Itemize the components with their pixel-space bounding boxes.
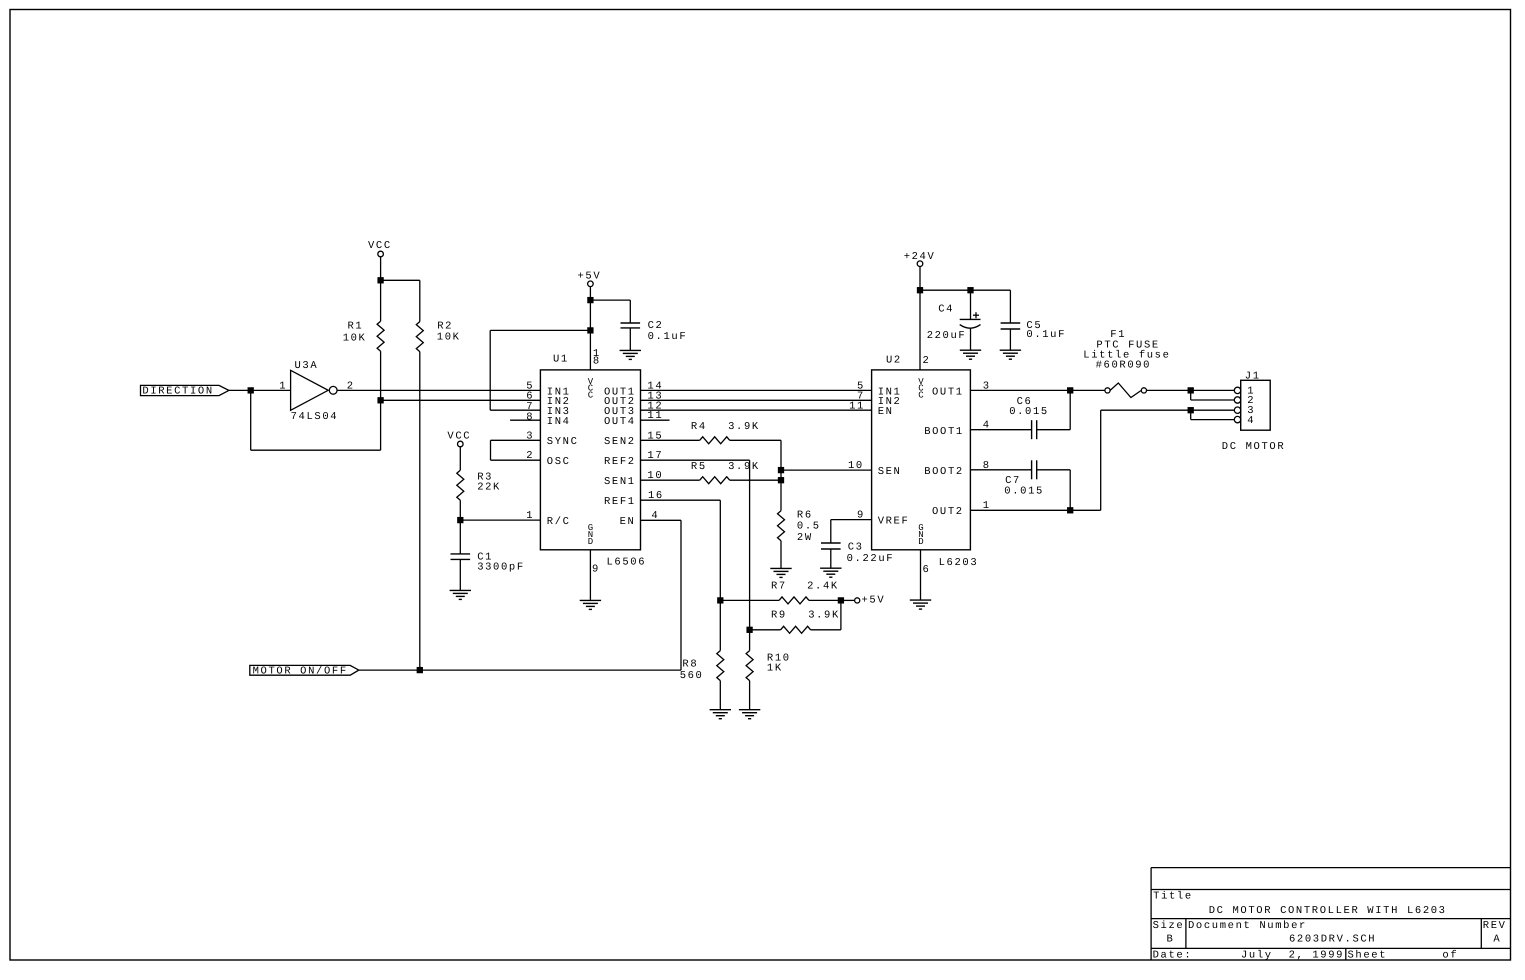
U1 pin OUT1 xyxy=(604,380,663,398)
U2 pin EN xyxy=(849,400,893,418)
svg-text:R5: R5 xyxy=(691,461,707,473)
resistor R1 xyxy=(343,280,384,400)
svg-text:3.9K: 3.9K xyxy=(808,610,840,622)
svg-text:22K: 22K xyxy=(477,482,501,494)
U2 pin OUT2 xyxy=(932,500,991,518)
wire xyxy=(1191,409,1235,411)
svg-text:R4: R4 xyxy=(691,421,707,433)
svg-text:L6506: L6506 xyxy=(607,557,647,569)
wire xyxy=(589,330,591,370)
svg-text:1: 1 xyxy=(279,380,287,392)
svg-text:C: C xyxy=(588,390,594,400)
capacitor C4 (electrolytic) xyxy=(927,290,981,342)
U2 pin VREF xyxy=(857,510,909,528)
wire xyxy=(590,299,630,301)
ground xyxy=(450,590,471,599)
junction xyxy=(588,328,593,333)
svg-text:74LS04: 74LS04 xyxy=(291,411,339,423)
wire xyxy=(1069,470,1071,511)
junction xyxy=(918,288,923,293)
U1 pin IN2 xyxy=(526,390,570,408)
wire xyxy=(381,279,420,281)
power VCC (R3) xyxy=(447,431,471,447)
svg-text:3.9K: 3.9K xyxy=(728,421,760,433)
resistor R9 xyxy=(750,610,841,634)
resistor R5 xyxy=(641,461,782,484)
junction xyxy=(838,598,843,603)
junction xyxy=(458,518,463,523)
U1 pin R/C xyxy=(526,510,570,528)
svg-text:9: 9 xyxy=(857,510,865,522)
svg-text:10K: 10K xyxy=(343,332,367,344)
svg-text:D: D xyxy=(588,537,593,547)
wire xyxy=(970,328,972,350)
junction xyxy=(1068,388,1073,393)
wire xyxy=(491,459,541,461)
resistor R7 xyxy=(720,580,841,604)
wire xyxy=(337,389,540,391)
wire xyxy=(641,459,750,461)
svg-text:10K: 10K xyxy=(437,332,461,344)
svg-text:C3: C3 xyxy=(848,542,864,554)
wire xyxy=(1191,399,1235,401)
resistor R8 xyxy=(680,600,724,709)
svg-text:+24V: +24V xyxy=(904,251,936,263)
svg-text:Date:: Date: xyxy=(1153,950,1193,962)
wire xyxy=(781,469,872,471)
junction xyxy=(248,388,253,393)
wire xyxy=(1101,409,1191,411)
wire xyxy=(841,599,855,601)
ground xyxy=(960,350,981,359)
svg-text:DC MOTOR: DC MOTOR xyxy=(1222,441,1285,453)
wire xyxy=(510,419,540,421)
U2 pin 6 label xyxy=(923,564,931,576)
svg-text:DIRECTION: DIRECTION xyxy=(142,385,213,397)
wire xyxy=(359,669,681,671)
junction xyxy=(417,668,422,673)
svg-text:R6: R6 xyxy=(797,509,813,521)
wire xyxy=(1100,410,1102,510)
wire xyxy=(1147,389,1235,391)
ground xyxy=(910,600,931,609)
wire xyxy=(380,257,382,281)
wire xyxy=(629,300,631,323)
resistor R4 xyxy=(641,421,782,444)
svg-text:VREF: VREF xyxy=(878,516,910,528)
junction xyxy=(378,278,383,283)
svg-text:4: 4 xyxy=(1247,415,1255,427)
wire xyxy=(381,399,541,401)
U1 GND pin name xyxy=(588,523,593,547)
U1 pin REF2 xyxy=(604,450,663,468)
svg-text:SEN1: SEN1 xyxy=(604,476,636,488)
svg-text:BOOT2: BOOT2 xyxy=(924,466,964,478)
wire xyxy=(641,519,682,521)
U2 pin SEN xyxy=(848,460,901,478)
wire xyxy=(719,500,721,600)
ground xyxy=(580,600,601,609)
U1 pin OSC xyxy=(526,450,570,468)
pin 2 label U3A xyxy=(347,380,355,392)
U2 pin BOOT2 xyxy=(924,460,991,478)
wire xyxy=(970,509,1100,511)
wire xyxy=(489,330,491,410)
svg-text:of: of xyxy=(1442,950,1458,962)
svg-text:B: B xyxy=(1167,934,1175,946)
power VCC (R1/R2) xyxy=(368,240,392,257)
svg-text:0.015: 0.015 xyxy=(1009,406,1049,418)
U1 pin SYNC xyxy=(526,430,578,448)
resistor R6 xyxy=(778,509,821,568)
wire xyxy=(1190,390,1192,400)
fuse F1 xyxy=(1083,329,1170,398)
wire xyxy=(1037,429,1071,431)
svg-text:R9: R9 xyxy=(771,610,787,622)
wire xyxy=(920,550,922,600)
svg-text:9: 9 xyxy=(592,564,600,576)
resistor R3 xyxy=(457,447,501,520)
pin 1 label U3A xyxy=(279,380,287,392)
svg-text:#60R090: #60R090 xyxy=(1096,360,1152,372)
input port MOTOR ON/OFF xyxy=(250,665,359,677)
svg-text:2: 2 xyxy=(923,355,931,367)
svg-text:R/C: R/C xyxy=(547,516,571,528)
junction xyxy=(1188,388,1193,393)
wire xyxy=(641,499,721,501)
wire xyxy=(970,469,1031,471)
U2 VCC pin name xyxy=(918,377,924,400)
svg-text:6: 6 xyxy=(923,564,931,576)
svg-text:OSC: OSC xyxy=(547,456,571,468)
svg-text:SEN2: SEN2 xyxy=(604,436,636,448)
svg-text:R7: R7 xyxy=(771,580,787,592)
wire xyxy=(380,400,382,450)
wire xyxy=(589,300,591,330)
svg-text:REF1: REF1 xyxy=(604,496,636,508)
svg-text:OUT4: OUT4 xyxy=(604,416,636,428)
svg-text:8: 8 xyxy=(526,411,534,423)
wire xyxy=(680,520,682,670)
wire xyxy=(589,550,591,601)
wire xyxy=(251,389,291,391)
svg-text:0.5: 0.5 xyxy=(797,521,821,533)
junction xyxy=(1068,508,1073,513)
wire xyxy=(589,287,591,301)
capacitor C3 xyxy=(821,520,894,569)
svg-text:0.015: 0.015 xyxy=(1004,486,1044,498)
svg-text:A: A xyxy=(1493,934,1501,946)
svg-text:U2: U2 xyxy=(886,355,902,367)
svg-text:IN4: IN4 xyxy=(547,416,571,428)
title block xyxy=(1151,868,1510,962)
wire xyxy=(920,289,1010,291)
svg-text:3300pF: 3300pF xyxy=(477,562,525,574)
svg-text:VCC: VCC xyxy=(447,431,471,443)
wire xyxy=(970,429,1031,431)
svg-text:+5V: +5V xyxy=(862,595,886,607)
U2 GND pin name xyxy=(918,523,923,547)
junction xyxy=(718,598,723,603)
svg-text:0.22uF: 0.22uF xyxy=(847,553,895,565)
svg-text:6203DRV.SCH: 6203DRV.SCH xyxy=(1289,934,1376,946)
svg-text:Document Number: Document Number xyxy=(1188,920,1307,932)
wire xyxy=(749,460,751,630)
junction xyxy=(779,468,784,473)
resistor R2 xyxy=(416,280,460,670)
svg-text:560: 560 xyxy=(680,670,704,682)
svg-text:Sheet: Sheet xyxy=(1348,950,1388,962)
junction xyxy=(588,298,593,303)
U1 pin IN4 xyxy=(526,411,570,428)
ground xyxy=(1000,350,1021,359)
svg-text:SEN: SEN xyxy=(878,466,902,478)
wire xyxy=(490,440,492,460)
svg-text:R8: R8 xyxy=(682,659,698,671)
U1 pin SEN2 xyxy=(604,430,663,448)
svg-text:U1: U1 xyxy=(553,354,569,366)
svg-text:3.9K: 3.9K xyxy=(728,461,760,473)
svg-text:8: 8 xyxy=(593,356,601,368)
svg-text:Title: Title xyxy=(1153,891,1193,903)
svg-text:OUT1: OUT1 xyxy=(932,386,964,398)
svg-text:220uF: 220uF xyxy=(927,330,967,342)
svg-text:2.4K: 2.4K xyxy=(807,580,839,592)
svg-text:1K: 1K xyxy=(767,663,783,675)
junction xyxy=(378,398,383,403)
U1 pin OUT3 xyxy=(604,400,663,418)
wire xyxy=(831,519,872,521)
svg-text:L6203: L6203 xyxy=(939,557,979,569)
wire xyxy=(919,290,921,370)
wire xyxy=(229,389,251,391)
svg-text:C: C xyxy=(918,390,924,400)
op-amp U1 body xyxy=(540,354,646,569)
wire xyxy=(641,399,872,401)
svg-text:2W: 2W xyxy=(797,532,813,544)
wire xyxy=(641,389,872,391)
connector J1 xyxy=(1222,371,1285,454)
wire xyxy=(491,439,541,441)
wire xyxy=(1037,469,1071,471)
U2 pin IN1 xyxy=(857,380,901,398)
svg-text:10: 10 xyxy=(848,460,864,472)
svg-text:0.1uF: 0.1uF xyxy=(1026,329,1066,341)
svg-text:J1: J1 xyxy=(1245,371,1261,383)
svg-text:EN: EN xyxy=(878,406,894,418)
ground xyxy=(739,710,760,719)
wire xyxy=(919,267,921,291)
op-amp U2 body xyxy=(872,355,979,570)
svg-text:R1: R1 xyxy=(348,321,364,333)
wire xyxy=(970,389,1105,391)
junction xyxy=(1188,408,1193,413)
ground xyxy=(710,710,731,719)
capacitor C6 xyxy=(1009,396,1049,439)
U1 pin 9 label xyxy=(592,564,600,576)
wire xyxy=(1191,419,1235,421)
svg-text:July 2, 1999: July 2, 1999 xyxy=(1241,950,1344,962)
U1 pin IN1 xyxy=(526,380,570,398)
wire xyxy=(840,600,842,629)
svg-text:11: 11 xyxy=(849,400,865,412)
svg-text:MOTOR ON/OFF: MOTOR ON/OFF xyxy=(253,665,348,677)
U1 pin SEN1 xyxy=(604,470,663,488)
capacitor C7 xyxy=(1004,460,1044,497)
wire xyxy=(460,519,540,521)
U1 pin EN xyxy=(620,510,660,528)
capacitor C2 xyxy=(621,320,688,343)
wire xyxy=(250,390,252,450)
svg-text:VCC: VCC xyxy=(368,240,392,252)
U1 pin REF1 xyxy=(604,490,664,508)
svg-text:REV: REV xyxy=(1483,920,1507,932)
wire xyxy=(251,449,381,451)
svg-text:BOOT1: BOOT1 xyxy=(924,426,964,438)
junction xyxy=(779,478,784,483)
svg-text:D: D xyxy=(918,537,923,547)
input port DIRECTION xyxy=(141,385,229,397)
wire xyxy=(641,409,872,411)
capacitor C5 xyxy=(1001,290,1066,350)
U1 pin IN3 xyxy=(526,401,570,418)
svg-text:REF2: REF2 xyxy=(604,456,636,468)
junction xyxy=(747,627,752,632)
wire xyxy=(1069,390,1071,429)
U1 pin OUT2 xyxy=(604,390,663,408)
wire xyxy=(1190,410,1192,419)
power +24V xyxy=(904,251,936,266)
inverter U3A xyxy=(291,360,339,423)
wire xyxy=(490,409,540,411)
U1 pin OUT4 xyxy=(604,410,663,428)
U2 pin BOOT1 xyxy=(924,420,991,438)
pin 1/8 labels U1 xyxy=(593,348,601,368)
power +5V (R7) xyxy=(855,595,886,607)
wire xyxy=(629,328,631,351)
U2 pin 2 label xyxy=(923,355,931,367)
svg-text:EN: EN xyxy=(620,516,636,528)
svg-text:Size: Size xyxy=(1153,920,1185,932)
svg-text:0.1uF: 0.1uF xyxy=(648,331,688,343)
svg-text:U3A: U3A xyxy=(295,360,319,372)
ground xyxy=(620,350,641,359)
ground xyxy=(770,568,791,577)
wire xyxy=(641,419,670,421)
U2 pin OUT1 xyxy=(932,380,991,398)
resistor R10 xyxy=(746,630,791,710)
svg-text:SYNC: SYNC xyxy=(547,436,579,448)
svg-text:C4: C4 xyxy=(938,304,954,316)
ground xyxy=(820,568,841,577)
capacitor C1 xyxy=(451,520,525,590)
svg-text:+5V: +5V xyxy=(578,270,602,282)
U2 pin IN2 xyxy=(857,390,901,408)
wire xyxy=(490,329,590,331)
U1 VCC pin name xyxy=(588,377,594,400)
svg-text:OUT2: OUT2 xyxy=(932,506,964,518)
wire xyxy=(780,440,782,510)
power +5V (U1) xyxy=(578,270,602,286)
svg-text:DC MOTOR CONTROLLER WITH L6203: DC MOTOR CONTROLLER WITH L6203 xyxy=(1209,905,1447,917)
junction xyxy=(968,288,973,293)
